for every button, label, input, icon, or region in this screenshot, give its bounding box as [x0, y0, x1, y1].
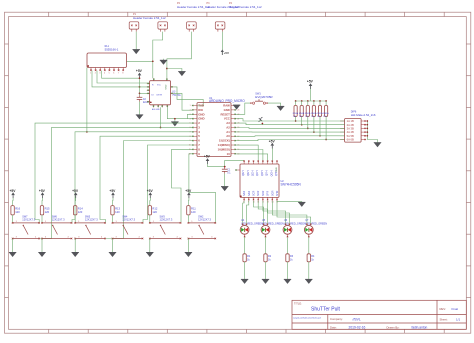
wire U1 14 to U2 — [236, 145, 258, 160]
DIP6 right side tie to ground — [366, 121, 368, 140]
resistor R16 — [11, 206, 21, 215]
wire relay pin1 to U3 — [92, 71, 150, 87]
svg-text:3: 3 — [99, 73, 100, 75]
+5V supply (RN pullups) — [307, 80, 314, 89]
wire C1 to ground — [224, 174, 226, 187]
IC U3 75176A — [147, 78, 174, 107]
svg-text:SCR: SCR — [257, 191, 260, 196]
switch SW6 — [41, 221, 72, 239]
ground (on P3 net) — [163, 59, 165, 60]
svg-text:ShuTTer Pult: ShuTTer Pult — [311, 307, 341, 313]
svg-text:Company:: Company: — [330, 317, 343, 321]
switch SW5 label — [85, 215, 98, 221]
resistor RN1B — [300, 100, 303, 125]
+5V supply (SW4) — [109, 189, 116, 198]
wire LED to resistor R1 — [244, 237, 246, 254]
wire SW1 to U1 RESET — [236, 103, 250, 114]
svg-text:R15: R15 — [45, 206, 50, 210]
svg-text:23: 23 — [238, 109, 240, 111]
junction — [152, 60, 154, 62]
wire U1 pin 9 — [189, 154, 216, 223]
wire U1 pin 4 — [72, 132, 192, 223]
wire U1 pin 2 — [35, 123, 192, 223]
wire U1 10 to U2 — [236, 154, 267, 161]
wire P1 to ground — [135, 32, 137, 50]
ground (SW1) — [277, 106, 284, 111]
junction — [139, 86, 141, 88]
svg-text:5555166-1: 5555166-1 — [105, 48, 119, 52]
wire U1 pin 8 — [172, 149, 193, 223]
svg-text:12X12X7.3: 12X12X7.3 — [52, 217, 65, 221]
svg-text:SDR: SDR — [262, 191, 265, 196]
wire U1 pin 3 — [39, 127, 192, 238]
wire SW2 to ground — [187, 239, 189, 253]
svg-text:Header Female 2.54_1x2: Header Female 2.54_1x2 — [133, 16, 166, 20]
junction — [166, 68, 168, 70]
svg-text:fadin.anton: fadin.anton — [412, 325, 428, 329]
resistor RN1C — [306, 100, 309, 129]
+5V supply below U1 — [204, 155, 211, 164]
switch SW7 label — [22, 215, 35, 221]
wire R3 to ground — [287, 262, 289, 280]
ground (SW6) — [38, 252, 45, 257]
svg-text:SAR: SAR — [243, 191, 246, 196]
svg-text:easyeda.com/fadin.anton/shutte: easyeda.com/fadin.anton/shutter-pult — [293, 317, 321, 320]
ground (SW7) — [9, 252, 16, 257]
svg-text:SCR: SCR — [253, 191, 256, 196]
resistor R13 — [111, 206, 121, 215]
wire U1 16 to U2 — [236, 150, 263, 161]
svg-text:Final: Final — [452, 307, 459, 311]
svg-text:120: 120 — [15, 210, 20, 214]
switch SW1 — [250, 99, 268, 104]
wire LED to resistor R4 — [308, 237, 310, 254]
LED U6 LED_RED_GREEN — [283, 219, 306, 237]
svg-text:120: 120 — [45, 210, 50, 214]
svg-text:Header Female 2.54_1x2: Header Female 2.54_1x2 — [177, 5, 210, 9]
svg-text:6A 6B: 6A 6B — [347, 138, 354, 142]
wire U1 A2 to DIP row3 — [236, 127, 344, 130]
svg-text:SHR: SHR — [276, 191, 279, 196]
wire P4 to +5V — [221, 32, 223, 55]
svg-text:SN74HC595N: SN74HC595N — [281, 183, 302, 187]
relay RL1 — [87, 53, 127, 71]
wire relay corner down to bus — [86, 68, 88, 132]
solder jumper marker — [259, 117, 263, 122]
connector P1 label — [133, 13, 166, 20]
svg-text://SVL: //SVL — [353, 317, 361, 321]
svg-text:1A 1B: 1A 1B — [347, 119, 354, 123]
svg-text:3A 3B: 3A 3B — [347, 127, 354, 131]
svg-text:QDH: QDH — [261, 170, 264, 176]
wire U3 GND pin down — [167, 107, 175, 118]
wire R1 to ground — [244, 262, 246, 280]
switch SW3 — [149, 221, 181, 239]
svg-text:+5V: +5V — [204, 155, 211, 159]
wire RN top rail — [296, 100, 327, 102]
wire relay pin3 to +5V rail — [102, 71, 140, 79]
svg-text:120: 120 — [78, 210, 83, 214]
svg-text:DE RE: DE RE — [157, 95, 163, 97]
wire +5V to C1 and U2 — [208, 160, 245, 166]
+5V supply (U2) — [269, 139, 276, 148]
wire branch to relay K1 — [127, 60, 153, 62]
ground — [178, 72, 185, 77]
svg-text:R11: R11 — [191, 206, 196, 210]
svg-text:+5V: +5V — [307, 80, 314, 84]
svg-text:QCH: QCH — [256, 170, 259, 176]
svg-text:+5V: +5V — [136, 69, 143, 73]
svg-text:R14: R14 — [78, 206, 83, 210]
title block text — [293, 301, 461, 329]
switch SW2 — [188, 221, 217, 239]
wire SW5 to ground — [74, 239, 76, 253]
resistor R2 — [264, 254, 272, 262]
connector DIP6 — [340, 119, 366, 143]
resistor R12 — [148, 206, 158, 215]
svg-text:2: 2 — [95, 73, 96, 75]
ground (U2) — [298, 202, 305, 207]
+5V supply (SW3) — [147, 189, 154, 198]
svg-text:2019-02-16: 2019-02-16 — [349, 325, 366, 329]
ground arrow at U1 RAW — [233, 105, 240, 110]
+5V supply (P4) — [221, 49, 229, 55]
svg-text:+5V: +5V — [147, 189, 154, 193]
wire relay pin2 to U3 — [97, 71, 150, 83]
ground (U1 GND) — [171, 122, 178, 127]
svg-text:RN1A: RN1A — [311, 112, 317, 115]
switch SW1 label — [255, 93, 273, 99]
ground (SW3) — [146, 252, 153, 257]
switch SW2 label — [198, 215, 211, 221]
ground (P1) — [133, 50, 140, 55]
wire R13 to switch — [112, 215, 114, 223]
connector DIP6 label — [351, 111, 376, 117]
switch SW7 — [12, 221, 40, 239]
RN labels — [293, 112, 330, 118]
svg-text:2: 2 — [190, 109, 191, 111]
relay RL1 label — [105, 45, 119, 51]
wire R2 to ground — [265, 262, 267, 280]
wire R16 to switch — [12, 215, 14, 223]
+5V supply (SW2) — [185, 189, 192, 198]
ground (SW2) — [185, 252, 192, 257]
svg-text:SAR: SAR — [248, 191, 251, 196]
svg-text:12X12X7.3: 12X12X7.3 — [22, 217, 35, 221]
wire LED to resistor R3 — [287, 237, 289, 254]
capacitor C1 — [222, 167, 228, 174]
+5V supply (SW6) — [39, 189, 46, 198]
svg-text:12X12X7.3: 12X12X7.3 — [85, 217, 98, 221]
wire SW6 to ground — [41, 239, 43, 253]
resistor R3 — [286, 254, 294, 262]
svg-text:QAH: QAH — [247, 170, 250, 176]
wire SW4 to ground — [112, 239, 114, 253]
svg-text:1: 1 — [90, 73, 91, 75]
svg-text:120: 120 — [152, 210, 157, 214]
svg-text:75176A: 75176A — [172, 94, 181, 97]
wire C2 to ground — [139, 102, 141, 115]
wire U3 to U1 RXI — [173, 93, 192, 110]
svg-text:R12: R12 — [152, 206, 157, 210]
svg-text:SFR: SFR — [267, 191, 270, 196]
svg-text:+5V: +5V — [39, 189, 46, 193]
resistor R15 — [40, 206, 50, 215]
resistor RN1D — [312, 100, 315, 133]
title block — [292, 300, 466, 329]
svg-text:GND: GND — [166, 84, 168, 89]
switch SW5 — [74, 221, 105, 239]
wire U1 A1 to DIP row4 — [236, 131, 344, 133]
svg-text:4: 4 — [104, 73, 105, 75]
svg-text:120: 120 — [115, 210, 120, 214]
svg-text:4A 4B: 4A 4B — [347, 130, 354, 134]
ground (SW4) — [109, 252, 116, 257]
svg-text:12X12X7.3: 12X12X7.3 — [122, 217, 135, 221]
wire U1 15 to DIP row6 — [236, 140, 344, 141]
wire to ground right — [167, 69, 182, 72]
svg-text:RN1A: RN1A — [323, 112, 329, 115]
connector P2 — [158, 22, 168, 32]
IC U2 label — [281, 180, 302, 186]
+5V supply (relay/U3) — [136, 69, 143, 78]
wire U1 GND pin3 jog — [187, 114, 192, 118]
svg-text:RN1A: RN1A — [305, 112, 311, 115]
svg-text:5: 5 — [109, 73, 110, 75]
ground (SW5) — [72, 252, 79, 257]
svg-text:QCH: QCH — [252, 170, 255, 176]
connector P4 label — [229, 2, 262, 9]
resistor R4 — [307, 254, 315, 262]
wire +5V down to C2 — [139, 78, 141, 95]
+5V supply (SW5) — [72, 189, 79, 198]
IC U2 SN74HC595N — [235, 160, 279, 203]
svg-text:R13: R13 — [115, 206, 120, 210]
svg-text:12X12X7.3: 12X12X7.3 — [198, 217, 211, 221]
resistor RN1F — [325, 100, 328, 140]
svg-text:6: 6 — [113, 73, 114, 75]
LED U5 LED_RED_GREEN — [261, 219, 284, 237]
IC U1 ARDUINO_PRO_MICRO — [189, 103, 240, 157]
ground (C2) — [136, 115, 143, 120]
wire C2 node to U3 — [140, 92, 150, 94]
wire R15 to switch — [41, 215, 43, 223]
ground (R2) — [262, 279, 269, 284]
wire R11 to switch — [187, 215, 189, 223]
connector P1 — [129, 22, 139, 32]
relay pin numbers — [90, 73, 123, 75]
wire U1 A0 to DIP row5 — [236, 135, 344, 138]
resistor R14 — [74, 206, 84, 215]
wire LED to resistor R2 — [265, 237, 267, 254]
svg-text:GND: GND — [276, 167, 278, 172]
IC U3 label — [172, 91, 181, 97]
resistor RN1E — [318, 100, 321, 136]
svg-text:10: 10 — [227, 152, 231, 156]
resistor R1 — [243, 254, 251, 262]
resistor R11 — [187, 206, 197, 215]
IC U1 label — [209, 96, 245, 103]
wire P2 to U3 pin and relay — [153, 32, 163, 79]
svg-text:R16: R16 — [15, 206, 20, 210]
ground (DIP6) — [374, 143, 381, 148]
svg-text:Header Female 2.54_1x2: Header Female 2.54_1x2 — [229, 5, 262, 9]
wire R4 to ground — [308, 262, 310, 280]
wire U3 to U1 TXD — [173, 87, 203, 106]
svg-text:REV:: REV: — [440, 307, 447, 311]
connector P4 — [215, 22, 225, 32]
wire U2 GND to ground — [277, 201, 302, 203]
svg-text:2A 2B: 2A 2B — [347, 123, 354, 127]
wire U1 pin 7 — [143, 145, 192, 223]
svg-text:Drawn By:: Drawn By: — [387, 325, 400, 329]
connector P2 label — [177, 2, 210, 9]
svg-text:12X12X7.3: 12X12X7.3 — [160, 217, 173, 221]
svg-text:RN1A: RN1A — [317, 112, 323, 115]
svg-text:+5V: +5V — [10, 189, 17, 193]
wires U2 outputs to LEDs — [243, 201, 244, 226]
ground (R3) — [284, 279, 291, 284]
svg-text:Date:: Date: — [330, 325, 337, 329]
switch SW4 label — [122, 215, 135, 221]
svg-text:+5V: +5V — [185, 189, 192, 193]
resistor RN1A — [294, 100, 297, 122]
ground (R1) — [241, 279, 248, 284]
svg-text:EVQ20705R: EVQ20705R — [255, 95, 273, 99]
svg-text:QAH: QAH — [242, 170, 245, 176]
svg-text:TITLE:: TITLE: — [294, 301, 302, 305]
capacitor C2 label — [143, 99, 149, 104]
wire SW1 to ground — [268, 103, 281, 106]
wire U1 pin 6 — [106, 141, 193, 239]
svg-text:+5V: +5V — [269, 139, 276, 143]
wire SW7 to ground — [12, 239, 14, 253]
svg-text:RN1A: RN1A — [293, 112, 299, 115]
wire P3 to U3 pin — [167, 32, 192, 79]
connector P3 label — [207, 2, 240, 9]
svg-text:7: 7 — [118, 73, 119, 75]
wire R14 to switch — [74, 215, 76, 223]
wire U1 VCC to DIP row1 — [236, 119, 344, 121]
+5V supply (SW7) — [10, 189, 17, 198]
wire U3 bottom to bus — [160, 107, 162, 127]
U3 bottom blue labels — [152, 108, 160, 111]
capacitor C1 label — [227, 170, 231, 175]
wire U1 pin 5 — [100, 136, 192, 223]
junction C2 top — [139, 93, 141, 95]
LED U4 LED_RED_GREEN — [240, 219, 263, 237]
svg-text:QGH: QGH — [270, 170, 273, 176]
svg-text:+5V: +5V — [109, 189, 116, 193]
svg-text:1: 1 — [190, 105, 191, 107]
ground (R4) — [305, 279, 312, 284]
svg-text:RN1A: RN1A — [299, 112, 305, 115]
svg-text:QFH: QFH — [266, 170, 269, 175]
capacitor C2 — [137, 95, 143, 101]
switch SW3 label — [160, 215, 173, 221]
svg-text:SGR: SGR — [271, 190, 274, 196]
connector P3 — [187, 22, 197, 32]
svg-text:5A 5B: 5A 5B — [347, 134, 354, 138]
wire U1 A3 to DIP row2 — [236, 123, 344, 125]
svg-text:+5V: +5V — [72, 189, 79, 193]
wire SW3 to ground — [149, 239, 151, 253]
svg-text:8: 8 — [122, 73, 123, 75]
ground (C1) — [221, 187, 228, 192]
svg-text:120: 120 — [191, 210, 196, 214]
LED U7 LED_RED_GREEN — [304, 219, 327, 237]
switch SW4 — [112, 221, 144, 239]
svg-text:+5V: +5V — [224, 51, 229, 55]
svg-text:1/1: 1/1 — [456, 317, 461, 321]
svg-text:Hdr-Male-2.54_2x6: Hdr-Male-2.54_2x6 — [351, 113, 376, 117]
switch SW6 label — [52, 215, 65, 221]
svg-text:Sheet:: Sheet: — [440, 317, 448, 321]
wire R12 to switch — [149, 215, 151, 223]
wire U1 GND to ground — [175, 119, 192, 122]
svg-text:A B GND: A B GND — [152, 108, 160, 111]
